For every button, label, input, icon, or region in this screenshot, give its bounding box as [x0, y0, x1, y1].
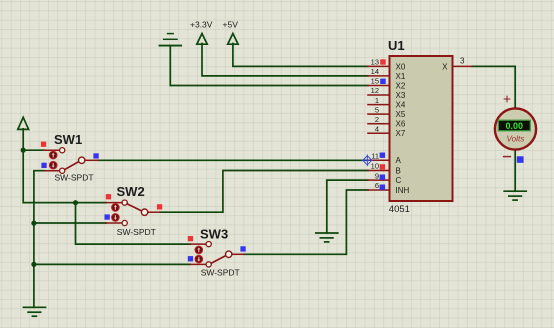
SW2 top throw contact: [122, 200, 127, 205]
SW2 state square top (red): [106, 194, 111, 199]
svg-text:0.00: 0.00: [506, 121, 524, 131]
wire SW3 pole to pin 6 (INH): [244, 190, 368, 254]
svg-text:X6: X6: [396, 120, 406, 129]
SW1 pole stub: [85, 159, 98, 161]
SW2 bottom throw stub: [106, 222, 122, 224]
svg-text:+3.3V: +3.3V: [190, 20, 213, 30]
svg-text:X1: X1: [396, 72, 406, 81]
wire SW1 top throw from junction: [23, 149, 45, 151]
SW3 bottom throw contact: [206, 262, 211, 267]
svg-text:2: 2: [375, 115, 379, 124]
svg-text:X5: X5: [396, 110, 406, 119]
power +3.3V: [197, 34, 207, 45]
SW3 state square top (red): [188, 236, 193, 241]
ground bottom-left: [24, 307, 46, 316]
wire left +V rail down to SW2 row: [23, 150, 106, 203]
wire +5V rail to pin 13 (X0): [233, 44, 368, 67]
SW3 lever: [211, 256, 226, 264]
SW1 state square pole (blue): [93, 153, 98, 158]
logic state square voltmeter (blue): [517, 156, 524, 163]
svg-text:B: B: [396, 167, 401, 176]
SW2 toggle button up: [112, 204, 120, 212]
wire +V branch down to SW3 top throw: [76, 203, 191, 245]
svg-text:U1: U1: [388, 38, 405, 53]
SW2 top throw stub: [106, 202, 122, 204]
svg-text:SW2: SW2: [117, 184, 145, 199]
svg-text:SW3: SW3: [200, 227, 228, 242]
wire pin 3 (X) to voltmeter: [472, 66, 515, 108]
SW2 bottom throw contact: [122, 220, 127, 225]
SW3 pole contact: [226, 251, 232, 257]
voltmeter display: [498, 120, 530, 131]
SW3 state square bottom (blue): [188, 256, 193, 261]
wire pin 9 (C) to middle ground: [327, 180, 368, 233]
wire voltmeter to right ground: [514, 150, 516, 191]
voltmeter plus terminal: [504, 96, 510, 102]
SW1 state square top (red): [41, 142, 46, 147]
logic state square pin6 blue: [380, 185, 386, 190]
svg-text:SW-SPDT: SW-SPDT: [117, 227, 156, 237]
svg-text:X2: X2: [396, 82, 406, 91]
ground middle: [316, 233, 338, 242]
SW2 toggle button down: [112, 214, 120, 222]
SW2 lever: [127, 204, 142, 211]
SW3 top throw stub: [190, 243, 206, 245]
SW1 state square bottom (blue): [41, 163, 46, 168]
svg-text:X7: X7: [396, 129, 406, 138]
voltmeter minus terminal: [504, 156, 511, 158]
svg-text:X4: X4: [396, 101, 406, 110]
svg-text:5: 5: [375, 105, 379, 114]
SW2 state square pole (red): [157, 204, 162, 209]
voltmeter body: [495, 108, 536, 149]
SW2 pole contact: [141, 209, 147, 215]
svg-text:Volts: Volts: [506, 134, 524, 143]
U1 pin numbers: [371, 58, 379, 191]
U1 pin labels: [396, 62, 449, 195]
SW1 bottom throw stub: [45, 170, 60, 172]
logic state square pin10 red: [380, 164, 386, 169]
ground right (under voltmeter): [504, 191, 526, 200]
SW3 top throw contact: [206, 242, 211, 247]
svg-text:C: C: [396, 176, 402, 185]
svg-text:3: 3: [460, 56, 465, 65]
svg-text:1: 1: [375, 96, 379, 105]
SW1 pole contact: [79, 157, 85, 163]
svg-text:SW-SPDT: SW-SPDT: [55, 173, 94, 183]
svg-text:11: 11: [371, 151, 379, 160]
svg-text:A: A: [396, 156, 402, 165]
svg-text:X0: X0: [396, 62, 406, 71]
logic state square pin15 blue: [380, 79, 386, 84]
U1 left pin stubs X0-X7: [368, 66, 390, 190]
svg-text:+5V: +5V: [223, 20, 239, 30]
node junction at SW2 top wire: [73, 200, 78, 205]
svg-text:4051: 4051: [389, 204, 410, 215]
svg-text:4: 4: [375, 124, 379, 133]
logic state square pin9 blue: [380, 175, 386, 180]
svg-text:INH: INH: [396, 186, 410, 195]
wire SW1 pole to pin 11 (A): [98, 159, 369, 161]
SW1 bottom throw contact: [60, 168, 65, 173]
SW3 toggle button up: [195, 246, 203, 254]
svg-text:10: 10: [371, 162, 379, 171]
logic state square pin13 red: [380, 59, 386, 64]
power arrow left (unlabeled): [18, 117, 29, 150]
wire SW2 pole to pin 10 (B): [160, 171, 368, 213]
switch SW3: [188, 227, 246, 278]
SW1 top throw contact: [60, 148, 65, 153]
wire ground rail to SW3 bottom throw: [34, 263, 190, 265]
node marker diamond at pin 11 wire: [362, 155, 373, 166]
SW3 pole stub: [232, 253, 244, 255]
wire top ground to pin 15 (X2): [170, 46, 368, 86]
svg-text:13: 13: [371, 58, 379, 67]
node junction ground rail / SW3 bottom: [31, 262, 36, 267]
node junction ground rail / SW2 bottom: [31, 221, 36, 226]
SW1 top throw stub: [45, 149, 60, 151]
svg-text:SW-SPDT: SW-SPDT: [201, 268, 240, 278]
SW2 state square bottom (blue): [105, 214, 110, 219]
IC U1 (4051 analog multiplexer) body: [390, 56, 453, 201]
wire +3.3V rail to pin 14 (X1): [202, 44, 368, 76]
svg-text:6: 6: [375, 181, 379, 190]
node junction at left rail / SW1: [21, 148, 26, 153]
svg-text:9: 9: [375, 171, 379, 180]
SW1 toggle button down: [49, 161, 57, 169]
SW3 toggle button down: [195, 255, 203, 263]
SW3 state square pole (blue): [240, 246, 245, 251]
switch SW2: [105, 184, 163, 237]
SW3 bottom throw stub: [190, 263, 206, 265]
svg-text:12: 12: [371, 86, 379, 95]
power +5V: [228, 34, 238, 45]
U1 right pin stub X: [453, 65, 473, 67]
svg-text:15: 15: [371, 77, 379, 86]
ground top (inverted): [160, 34, 182, 46]
svg-text:14: 14: [371, 67, 379, 76]
SW1 toggle button up: [49, 151, 57, 159]
SW1 lever: [65, 162, 79, 170]
svg-text:X3: X3: [396, 91, 406, 100]
switch SW1: [41, 132, 99, 183]
logic state square pin11 blue: [380, 153, 386, 158]
wire SW1 bottom throw to ground rail: [34, 171, 45, 308]
svg-text:SW1: SW1: [54, 132, 82, 147]
svg-text:X: X: [442, 62, 448, 71]
wire ground rail to SW2 bottom throw: [34, 222, 106, 224]
SW2 pole stub: [148, 211, 160, 213]
